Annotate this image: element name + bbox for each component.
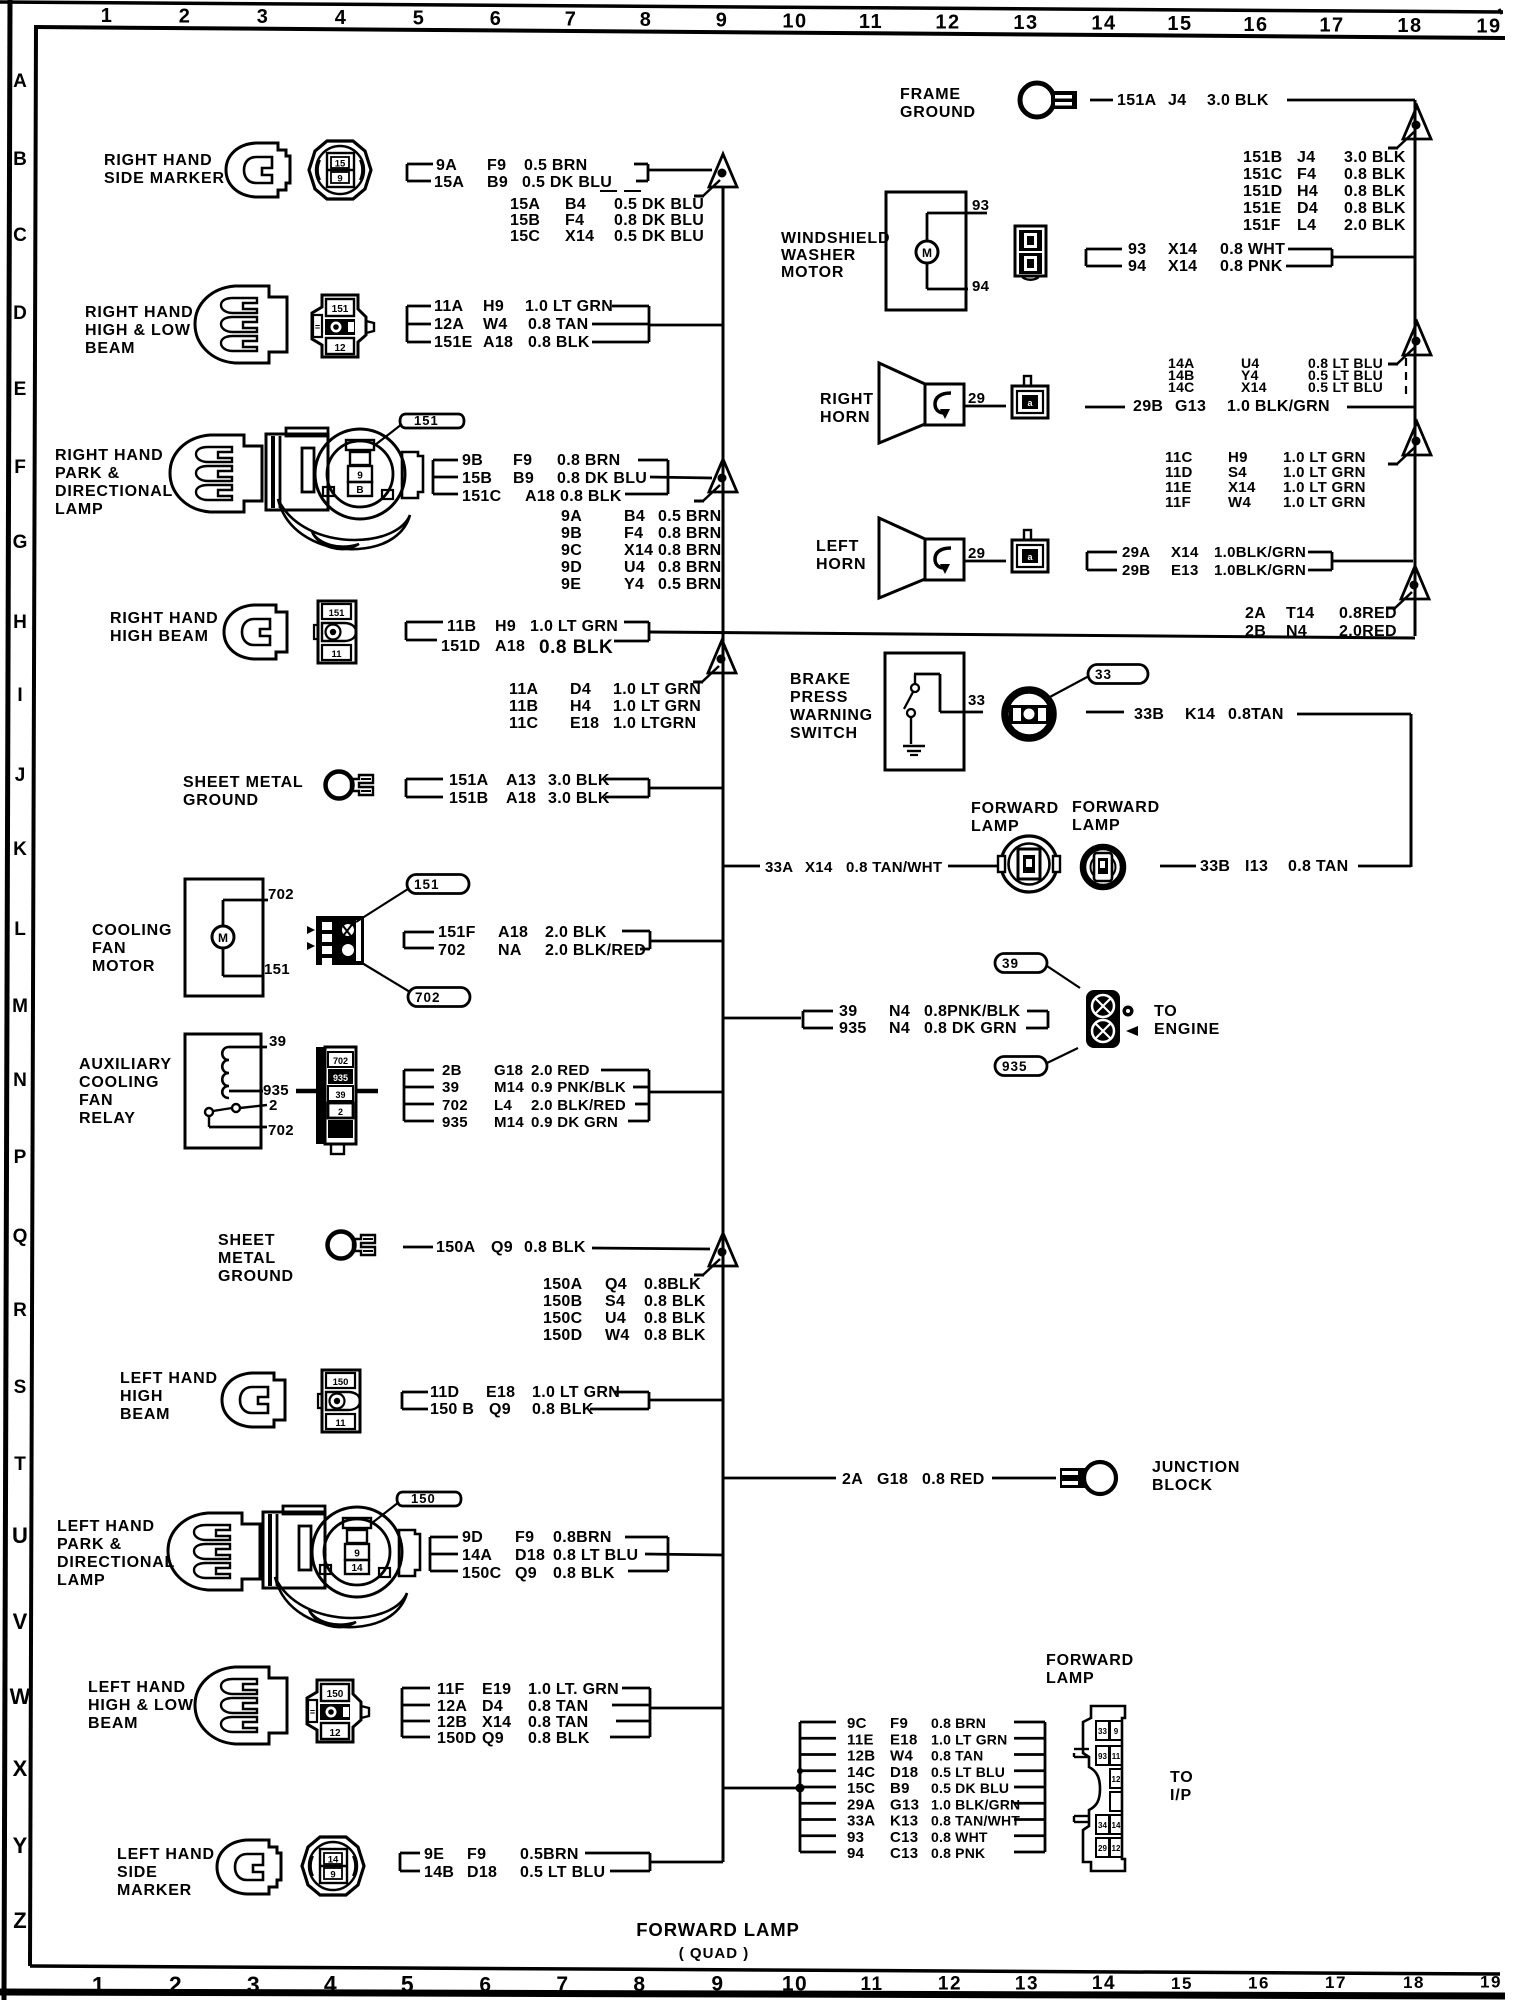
svg-text:F4: F4	[624, 525, 643, 542]
wire: brake switch to forward lamp loop (vertical)	[1410, 714, 1413, 867]
svg-text:A18: A18	[525, 488, 555, 505]
lamp assembly: left hand park & directional with tag 150	[263, 1491, 461, 1627]
svg-text:GROUND: GROUND	[900, 104, 976, 121]
wire 151A/151B right bracket to bus	[605, 778, 649, 781]
svg-text:SIDE: SIDE	[117, 1864, 158, 1881]
tag 33 oval (brake press)	[1088, 665, 1148, 684]
tag 935 oval (engine)	[995, 1057, 1047, 1076]
svg-text:F4: F4	[1297, 166, 1316, 183]
svg-text:LAMP: LAMP	[55, 501, 104, 518]
svg-text:33B: 33B	[1200, 858, 1230, 875]
svg-text:0.8 WHT: 0.8 WHT	[931, 1829, 988, 1845]
svg-text:33A: 33A	[765, 859, 793, 876]
ground lug: sheet metal ground (upper)	[326, 772, 374, 799]
svg-text:151F: 151F	[438, 924, 476, 941]
svg-text:K14: K14	[1185, 706, 1215, 723]
svg-text:2.0 BLK/RED: 2.0 BLK/RED	[531, 1097, 626, 1114]
svg-text:LAMP: LAMP	[57, 1572, 106, 1589]
svg-text:0.8 BLK: 0.8 BLK	[644, 1327, 706, 1344]
page border left edge	[4, 0, 10, 2000]
ground reference triangle at grid 9-F	[709, 459, 737, 492]
svg-text:15C: 15C	[510, 228, 540, 245]
svg-text:D18: D18	[467, 1864, 497, 1881]
svg-text:151D: 151D	[441, 638, 480, 655]
svg-text:V: V	[13, 1609, 28, 1634]
svg-text:9B: 9B	[561, 525, 582, 542]
svg-text:11: 11	[860, 1974, 883, 1995]
svg-text:N4: N4	[889, 1020, 910, 1037]
svg-text:HORN: HORN	[816, 556, 866, 573]
svg-text:29B: 29B	[1133, 398, 1163, 415]
svg-text:12A: 12A	[434, 316, 464, 333]
wire ladder left bracket	[799, 1722, 802, 1852]
svg-text:W4: W4	[1228, 494, 1251, 511]
svg-text:5: 5	[413, 7, 426, 29]
drawing frame top border	[34, 27, 1505, 38]
svg-text:W4: W4	[483, 316, 508, 333]
scan artifact dashes	[600, 190, 617, 192]
wire inside cooling fan box to 151	[222, 948, 225, 976]
ground reference triangle at grid 9-H	[708, 640, 736, 673]
wire 2A G18 0.8 RED from bus to junction block	[723, 1477, 836, 1480]
svg-text:DIRECTIONAL: DIRECTIONAL	[55, 483, 173, 500]
svg-text:150: 150	[327, 1689, 344, 1700]
svg-text:150: 150	[411, 1491, 436, 1506]
connector: brake press warning switch (round)	[1005, 690, 1053, 738]
svg-text:9C: 9C	[847, 1715, 867, 1732]
svg-text:13: 13	[1015, 1973, 1039, 1994]
wire bracket 2B/39/702/935	[403, 1070, 406, 1121]
wire ladder row 9C F9 0.8 BRN	[800, 1721, 836, 1724]
lamp socket: left hand high beam	[222, 1373, 285, 1427]
svg-text:11A: 11A	[509, 681, 539, 698]
svg-text:3.0 BLK: 3.0 BLK	[548, 790, 610, 807]
svg-text:RIGHT: RIGHT	[820, 391, 874, 408]
left margin row letters A-Z	[10, 71, 31, 1933]
svg-text:DIRECTIONAL: DIRECTIONAL	[57, 1554, 175, 1571]
ground lug: frame ground	[1020, 83, 1077, 117]
wire ladder row 15C B9 0.5 DK BLU	[800, 1786, 836, 1789]
svg-text:33A: 33A	[847, 1813, 875, 1830]
svg-text:LAMP: LAMP	[971, 818, 1020, 835]
svg-text:150A: 150A	[436, 1239, 476, 1256]
connector: left hand high beam	[318, 1370, 360, 1432]
svg-text:B9: B9	[513, 470, 534, 487]
svg-text:BLOCK: BLOCK	[1152, 1477, 1213, 1494]
svg-text:NA: NA	[498, 942, 522, 959]
ground reference triangle at grid 9-Q	[709, 1233, 737, 1266]
svg-text:ENGINE: ENGINE	[1154, 1021, 1220, 1038]
svg-text:S4: S4	[605, 1293, 625, 1310]
svg-text:2.0RED: 2.0RED	[1339, 623, 1397, 640]
relay coil lower wire to 935	[229, 1090, 263, 1093]
svg-text:B: B	[356, 485, 363, 496]
svg-text:151C: 151C	[1243, 166, 1283, 183]
wire from bus to forward lamp ladder	[723, 1787, 800, 1790]
svg-text:39: 39	[1002, 956, 1019, 971]
svg-text:39: 39	[269, 1033, 286, 1050]
svg-text:F9: F9	[890, 1715, 908, 1732]
wire ladder row 12B W4 0.8 TAN	[800, 1753, 836, 1756]
motor symbol M (cooling fan)	[212, 926, 234, 948]
svg-text:6: 6	[490, 8, 503, 30]
svg-text:A18: A18	[506, 790, 536, 807]
horn symbol: left horn	[879, 518, 964, 598]
svg-text:F: F	[14, 457, 26, 478]
wire bracket 9B/15B/151C	[432, 460, 435, 494]
svg-text:0.5 BRN: 0.5 BRN	[658, 508, 721, 525]
leader line 702 tag	[362, 963, 410, 992]
svg-text:19: 19	[1476, 16, 1501, 38]
svg-text:0.8 BRN: 0.8 BRN	[658, 559, 721, 576]
svg-text:K13: K13	[890, 1813, 918, 1830]
svg-text:D4: D4	[482, 1698, 503, 1715]
svg-text:C: C	[13, 225, 27, 246]
wire bracket 11F/12A/12B/150D	[401, 1688, 404, 1737]
svg-text:1.0 LT GRN: 1.0 LT GRN	[931, 1731, 1007, 1747]
component box: brake press warning switch	[885, 653, 964, 770]
wire inside cooling fan box to 702	[222, 900, 225, 926]
svg-text:2.0 RED: 2.0 RED	[531, 1062, 590, 1079]
svg-text:9D: 9D	[462, 1529, 483, 1546]
svg-text:0.8 DK GRN: 0.8 DK GRN	[924, 1020, 1017, 1037]
svg-text:0.8 TAN: 0.8 TAN	[528, 1714, 588, 1731]
svg-text:Z: Z	[13, 1908, 26, 1933]
svg-text:3: 3	[247, 1971, 261, 1997]
svg-text:11B: 11B	[447, 618, 476, 635]
svg-text:151B: 151B	[1243, 149, 1282, 166]
svg-text:0.8 BLK: 0.8 BLK	[560, 488, 622, 505]
svg-text:T: T	[14, 1454, 26, 1475]
svg-text:12: 12	[935, 11, 960, 33]
svg-text:93: 93	[972, 197, 989, 214]
svg-text:0.8PNK/BLK: 0.8PNK/BLK	[924, 1003, 1020, 1020]
switch symbol inside brake press box	[914, 673, 940, 676]
svg-text:33: 33	[968, 692, 985, 709]
svg-text:1.0BLK/GRN: 1.0BLK/GRN	[1214, 562, 1306, 579]
svg-text:=: =	[315, 322, 320, 332]
svg-text:0.8 BRN: 0.8 BRN	[931, 1715, 986, 1731]
svg-text:9: 9	[357, 471, 363, 482]
svg-text:L: L	[14, 919, 26, 940]
svg-text:RIGHT HAND: RIGHT HAND	[110, 610, 218, 627]
svg-text:3.0 BLK: 3.0 BLK	[1344, 149, 1406, 166]
svg-text:11: 11	[331, 649, 342, 660]
svg-text:0.5 LT BLU: 0.5 LT BLU	[931, 1764, 1005, 1780]
svg-text:935: 935	[442, 1114, 468, 1131]
svg-text:11B: 11B	[509, 698, 538, 715]
svg-text:2: 2	[169, 1972, 183, 1998]
svg-text:935: 935	[839, 1020, 867, 1037]
svg-text:150D: 150D	[437, 1730, 476, 1747]
svg-text:X14: X14	[624, 542, 653, 559]
svg-text:150C: 150C	[462, 1565, 502, 1582]
svg-text:GROUND: GROUND	[183, 792, 259, 809]
svg-text:3.0 BLK: 3.0 BLK	[548, 772, 610, 789]
wire right bracket 9B/15B/151C to bus	[638, 459, 668, 462]
svg-text:F9: F9	[513, 452, 532, 469]
svg-text:GROUND: GROUND	[218, 1268, 294, 1285]
svg-text:BRAKE: BRAKE	[790, 671, 851, 688]
svg-text:W4: W4	[605, 1327, 630, 1344]
svg-text:H: H	[13, 612, 27, 633]
svg-text:PARK &: PARK &	[57, 1536, 122, 1553]
wire inside washer box to 94	[926, 263, 929, 289]
svg-text:FAN: FAN	[79, 1092, 113, 1109]
connector: left hand high & low beam	[307, 1680, 369, 1742]
svg-text:SIDE MARKER: SIDE MARKER	[104, 170, 225, 187]
svg-text:LEFT HAND: LEFT HAND	[120, 1370, 218, 1387]
svg-text:150D: 150D	[543, 1327, 582, 1344]
svg-text:X: X	[13, 1756, 28, 1781]
svg-text:2.0 BLK: 2.0 BLK	[1344, 217, 1406, 234]
svg-text:0.8 DK BLU: 0.8 DK BLU	[557, 470, 647, 487]
svg-text:FRAME: FRAME	[900, 86, 961, 103]
wire bracket 9D/14A/150C	[429, 1537, 432, 1571]
svg-text:2: 2	[338, 1107, 343, 1117]
connector: forward lamp bulkhead (to I/P)	[1074, 1706, 1125, 1871]
svg-text:S: S	[14, 1377, 27, 1398]
svg-text:12: 12	[1112, 1844, 1121, 1853]
connector: right hand side marker (round 2-cell)	[309, 141, 371, 199]
wire ladder row 33A K13 0.8 TAN/WHT	[800, 1818, 836, 1821]
page border top edge	[0, 2, 1503, 12]
svg-text:15C: 15C	[847, 1780, 875, 1797]
wire 151F/702 right bracket to bus	[622, 930, 650, 933]
svg-text:11: 11	[1112, 1752, 1121, 1761]
ground reference triangle at grid 18-A	[1403, 106, 1431, 139]
svg-text:14B: 14B	[424, 1864, 454, 1881]
connector: right hand high & low beam (3-cell)	[312, 295, 374, 357]
svg-text:9: 9	[716, 10, 729, 32]
svg-text:15: 15	[1167, 13, 1192, 35]
drawing frame bottom border	[30, 1966, 1500, 1974]
svg-text:151E: 151E	[434, 334, 473, 351]
svg-text:12B: 12B	[847, 1748, 875, 1765]
lamp socket: right hand high beam	[224, 605, 287, 659]
svg-text:1.0 BLK/GRN: 1.0 BLK/GRN	[1227, 398, 1330, 415]
svg-text:E19: E19	[482, 1681, 511, 1698]
svg-text:G13: G13	[1175, 398, 1206, 415]
svg-text:X14: X14	[565, 228, 594, 245]
wire ladder row 14C D18 0.5 LT BLU	[800, 1769, 836, 1772]
svg-text:JUNCTION: JUNCTION	[1152, 1459, 1240, 1476]
svg-text:N4: N4	[1286, 623, 1307, 640]
svg-text:E18: E18	[890, 1731, 918, 1748]
svg-text:8: 8	[640, 9, 653, 31]
svg-text:0.8 BLK: 0.8 BLK	[553, 1565, 615, 1582]
svg-text:33B: 33B	[1134, 706, 1164, 723]
svg-text:15B: 15B	[510, 212, 540, 229]
svg-text:151F: 151F	[1243, 217, 1281, 234]
svg-text:SWITCH: SWITCH	[790, 725, 858, 742]
svg-text:TO: TO	[1154, 1003, 1178, 1020]
tag 151 oval (cooling fan)	[407, 875, 469, 894]
svg-text:M: M	[922, 246, 932, 260]
svg-text:F9: F9	[515, 1529, 534, 1546]
svg-text:17: 17	[1325, 1973, 1347, 1992]
svg-text:150: 150	[333, 1377, 349, 1388]
svg-text:0.8BLK: 0.8BLK	[644, 1276, 701, 1293]
svg-text:FORWARD: FORWARD	[1072, 799, 1160, 816]
svg-text:14: 14	[1092, 1973, 1116, 1994]
svg-text:PRESS: PRESS	[790, 689, 848, 706]
svg-text:TO: TO	[1170, 1769, 1194, 1786]
svg-text:11F: 11F	[437, 1681, 465, 1698]
svg-text:AUXILIARY: AUXILIARY	[79, 1056, 172, 1073]
svg-text:C13: C13	[890, 1829, 918, 1846]
svg-text:0.8 BRN: 0.8 BRN	[658, 542, 721, 559]
svg-text:RIGHT HAND: RIGHT HAND	[104, 152, 212, 169]
page border bottom edge	[0, 1992, 1505, 1996]
ground reference triangle at grid 18-E	[1403, 422, 1431, 455]
svg-text:2B: 2B	[442, 1062, 462, 1079]
ground reference triangle at grid 9-B	[709, 154, 737, 187]
svg-text:12: 12	[329, 1728, 341, 1739]
svg-text:HIGH BEAM: HIGH BEAM	[110, 628, 209, 645]
svg-text:Q4: Q4	[605, 1276, 627, 1293]
svg-text:0.8TAN: 0.8TAN	[1228, 706, 1284, 723]
lamp socket: right hand high & low beam	[195, 286, 287, 363]
svg-text:0.8 BLK: 0.8 BLK	[1344, 166, 1406, 183]
svg-text:702: 702	[415, 990, 441, 1005]
svg-text:Y: Y	[13, 1833, 28, 1858]
svg-text:2: 2	[179, 6, 192, 28]
svg-text:N: N	[13, 1070, 27, 1091]
svg-text:10: 10	[782, 1972, 808, 1995]
svg-text:E: E	[14, 379, 27, 400]
svg-text:12: 12	[334, 343, 346, 354]
svg-text:J: J	[15, 765, 26, 786]
svg-text:18: 18	[1397, 15, 1422, 37]
wire bracket 9E/14B	[399, 1853, 402, 1871]
svg-text:702: 702	[442, 1097, 468, 1114]
svg-text:151: 151	[329, 608, 346, 619]
svg-text:1.0 BLK/GRN: 1.0 BLK/GRN	[931, 1796, 1020, 1812]
svg-text:0.8 RED: 0.8 RED	[922, 1471, 985, 1488]
svg-text:151: 151	[264, 961, 290, 978]
svg-text:WARNING: WARNING	[790, 707, 873, 724]
svg-text:D18: D18	[515, 1547, 545, 1564]
svg-text:A18: A18	[498, 924, 528, 941]
svg-text:0.9 PNK/BLK: 0.9 PNK/BLK	[531, 1079, 626, 1096]
wire bracket 11D/150B	[401, 1392, 404, 1409]
svg-text:0.8 BLK: 0.8 BLK	[1344, 200, 1406, 217]
svg-text:9: 9	[337, 174, 342, 185]
svg-text:WASHER: WASHER	[781, 247, 856, 264]
svg-text:1.0 LT. GRN: 1.0 LT. GRN	[528, 1681, 619, 1698]
connector: windshield washer motor (2-cell)	[1015, 226, 1046, 280]
svg-text:X14: X14	[1168, 258, 1197, 275]
svg-text:B4: B4	[565, 196, 586, 213]
svg-text:0.5 DK BLU: 0.5 DK BLU	[522, 174, 612, 191]
lamp assembly: right hand park & directional with tag 151	[266, 413, 464, 549]
svg-text:LEFT: LEFT	[816, 538, 859, 555]
svg-text:0.8 WHT: 0.8 WHT	[1220, 241, 1285, 258]
wire right bracket 39/935	[1027, 1010, 1048, 1013]
svg-text:F9: F9	[467, 1846, 486, 1863]
svg-text:11D: 11D	[430, 1384, 459, 1401]
svg-text:3.0 BLK: 3.0 BLK	[1207, 92, 1269, 109]
bottom ruler grid numbers 1-19	[92, 1971, 1502, 1998]
svg-text:2A: 2A	[1245, 605, 1266, 622]
svg-text:I13: I13	[1245, 858, 1268, 875]
wire 33B K14 0.8TAN to loop	[1086, 711, 1124, 714]
wire bracket 29A/29B	[1086, 552, 1089, 570]
wire bracket 11B/151D	[405, 622, 408, 640]
svg-text:151D: 151D	[1243, 183, 1282, 200]
svg-text:SHEET: SHEET	[218, 1232, 275, 1249]
svg-text:702: 702	[268, 1122, 294, 1139]
svg-text:7: 7	[565, 9, 578, 31]
svg-text:9A: 9A	[436, 157, 457, 174]
svg-text:151A: 151A	[449, 772, 489, 789]
svg-text:150C: 150C	[543, 1310, 583, 1327]
svg-text:FAN: FAN	[92, 940, 126, 957]
svg-text:0.8 BLK: 0.8 BLK	[644, 1310, 706, 1327]
svg-text:94: 94	[972, 278, 990, 295]
svg-text:U4: U4	[605, 1310, 626, 1327]
svg-text:G: G	[13, 532, 28, 553]
svg-text:B9: B9	[487, 174, 508, 191]
svg-text:702: 702	[438, 942, 466, 959]
svg-text:=: =	[310, 1707, 315, 1717]
svg-text:FORWARD LAMP: FORWARD LAMP	[636, 1919, 800, 1940]
svg-text:0.8 BRN: 0.8 BRN	[658, 525, 721, 542]
svg-text:D18: D18	[890, 1764, 918, 1781]
svg-text:2: 2	[269, 1097, 278, 1114]
svg-text:U: U	[12, 1523, 28, 1548]
svg-text:M14: M14	[494, 1079, 524, 1096]
svg-text:FORWARD: FORWARD	[971, 800, 1059, 817]
svg-text:6: 6	[479, 1974, 492, 1997]
svg-text:B: B	[13, 149, 27, 170]
svg-text:0.8 BLK: 0.8 BLK	[532, 1401, 594, 1418]
svg-text:LEFT HAND: LEFT HAND	[117, 1846, 215, 1863]
svg-text:0.9 DK GRN: 0.9 DK GRN	[531, 1114, 618, 1131]
svg-text:0.8 TAN: 0.8 TAN	[1288, 858, 1348, 875]
svg-text:Y4: Y4	[624, 576, 644, 593]
svg-text:39: 39	[442, 1079, 459, 1096]
svg-text:33: 33	[1098, 1727, 1107, 1736]
svg-text:8: 8	[633, 1973, 646, 1996]
svg-text:9: 9	[330, 1870, 335, 1881]
svg-text:29A: 29A	[1122, 544, 1150, 561]
svg-text:METAL: METAL	[218, 1250, 276, 1267]
svg-text:L4: L4	[494, 1097, 512, 1114]
svg-text:9: 9	[1114, 1727, 1119, 1736]
component box: windshield washer motor	[886, 192, 966, 310]
svg-text:RIGHT HAND: RIGHT HAND	[85, 304, 193, 321]
svg-text:Q: Q	[13, 1226, 28, 1247]
svg-text:12: 12	[1112, 1775, 1121, 1784]
svg-text:G18: G18	[494, 1062, 523, 1079]
svg-text:39: 39	[839, 1003, 857, 1020]
svg-text:U4: U4	[624, 559, 645, 576]
svg-text:11C: 11C	[509, 715, 539, 732]
wire ladder row 11E E18 1.0 LT GRN	[800, 1737, 836, 1740]
leader line 33 tag	[1048, 676, 1089, 698]
svg-text:16: 16	[1243, 14, 1268, 36]
svg-text:151: 151	[414, 877, 440, 892]
svg-text:BEAM: BEAM	[88, 1715, 138, 1732]
wire 33A X14 0.8 TAN/WHT from bus	[723, 865, 760, 868]
connector: cooling fan motor (black block)	[307, 916, 364, 966]
connector: right horn	[1012, 376, 1048, 418]
wire 29 stub right horn	[964, 405, 1006, 408]
svg-text:150A: 150A	[543, 1276, 583, 1293]
svg-text:0.5 LT BLU: 0.5 LT BLU	[1308, 379, 1383, 395]
